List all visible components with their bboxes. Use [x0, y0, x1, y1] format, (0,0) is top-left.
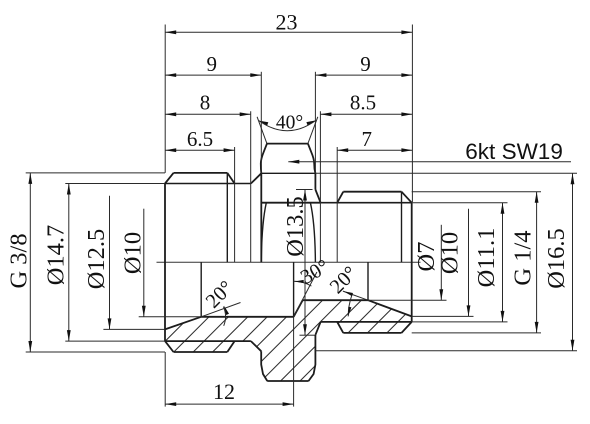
svg-text:Ø13.5: Ø13.5	[282, 196, 309, 257]
svg-text:9: 9	[360, 52, 371, 76]
svg-text:7: 7	[362, 127, 373, 151]
svg-text:23: 23	[276, 10, 298, 35]
svg-text:12: 12	[213, 379, 235, 404]
svg-text:Ø10: Ø10	[120, 232, 147, 274]
svg-text:Ø10: Ø10	[437, 232, 464, 274]
svg-text:Ø14.7: Ø14.7	[43, 225, 70, 286]
svg-text:9: 9	[206, 52, 217, 76]
svg-text:G 3/8: G 3/8	[6, 233, 33, 288]
svg-text:8: 8	[200, 91, 211, 115]
svg-text:G 1/4: G 1/4	[510, 230, 537, 285]
svg-text:Ø12.5: Ø12.5	[83, 229, 110, 290]
svg-text:8.5: 8.5	[350, 91, 376, 115]
svg-text:Ø16.5: Ø16.5	[543, 228, 570, 289]
svg-text:6kt SW19: 6kt SW19	[465, 139, 563, 164]
svg-text:6.5: 6.5	[187, 127, 213, 151]
svg-text:Ø11.1: Ø11.1	[473, 228, 500, 288]
svg-text:40°: 40°	[276, 113, 303, 134]
